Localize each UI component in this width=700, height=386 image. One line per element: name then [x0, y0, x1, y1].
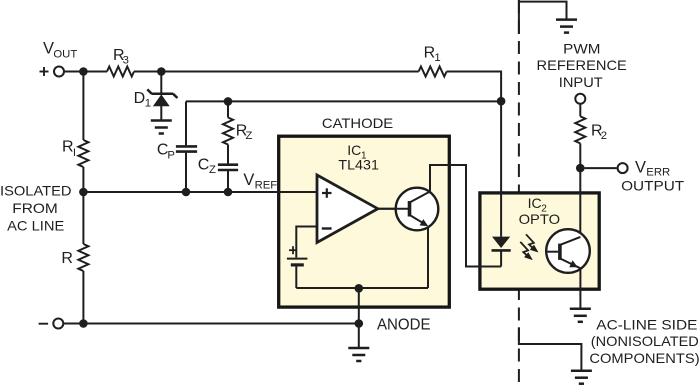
svg-text:3: 3	[123, 54, 129, 66]
svg-text:C: C	[198, 157, 210, 174]
svg-text:2: 2	[601, 130, 607, 142]
svg-text:OUTPUT: OUTPUT	[621, 178, 685, 194]
svg-text:OUT: OUT	[53, 48, 77, 60]
svg-text:Z: Z	[209, 164, 216, 176]
svg-text:IC: IC	[347, 142, 361, 158]
svg-text:REF: REF	[255, 179, 278, 191]
svg-text:R: R	[62, 139, 74, 156]
svg-text:REFERENCE: REFERENCE	[537, 57, 627, 73]
svg-text:1: 1	[145, 97, 151, 109]
svg-text:P: P	[167, 149, 175, 161]
svg-text:V: V	[635, 158, 646, 176]
svg-text:COMPONENTS): COMPONENTS)	[589, 350, 699, 366]
svg-text:IC: IC	[528, 195, 542, 211]
svg-text:ANODE: ANODE	[377, 316, 431, 333]
svg-text:R: R	[61, 250, 73, 267]
svg-text:V: V	[43, 40, 54, 58]
svg-text:TL431: TL431	[338, 157, 379, 173]
svg-text:FROM: FROM	[12, 200, 58, 216]
svg-text:PWM: PWM	[563, 40, 600, 56]
svg-text:D: D	[134, 90, 146, 107]
svg-text:Z: Z	[246, 130, 253, 142]
svg-text:1: 1	[434, 52, 440, 64]
svg-text:AC LINE: AC LINE	[7, 217, 64, 233]
svg-text:INPUT: INPUT	[559, 74, 603, 90]
svg-text:CATHODE: CATHODE	[322, 115, 393, 131]
svg-text:I: I	[73, 147, 76, 159]
svg-text:(NONISOLATED: (NONISOLATED	[591, 333, 699, 349]
svg-text:V: V	[243, 171, 254, 189]
svg-text:OPTO: OPTO	[519, 211, 561, 227]
svg-text:AC-LINE SIDE: AC-LINE SIDE	[596, 317, 697, 333]
svg-text:ISOLATED: ISOLATED	[0, 183, 72, 199]
